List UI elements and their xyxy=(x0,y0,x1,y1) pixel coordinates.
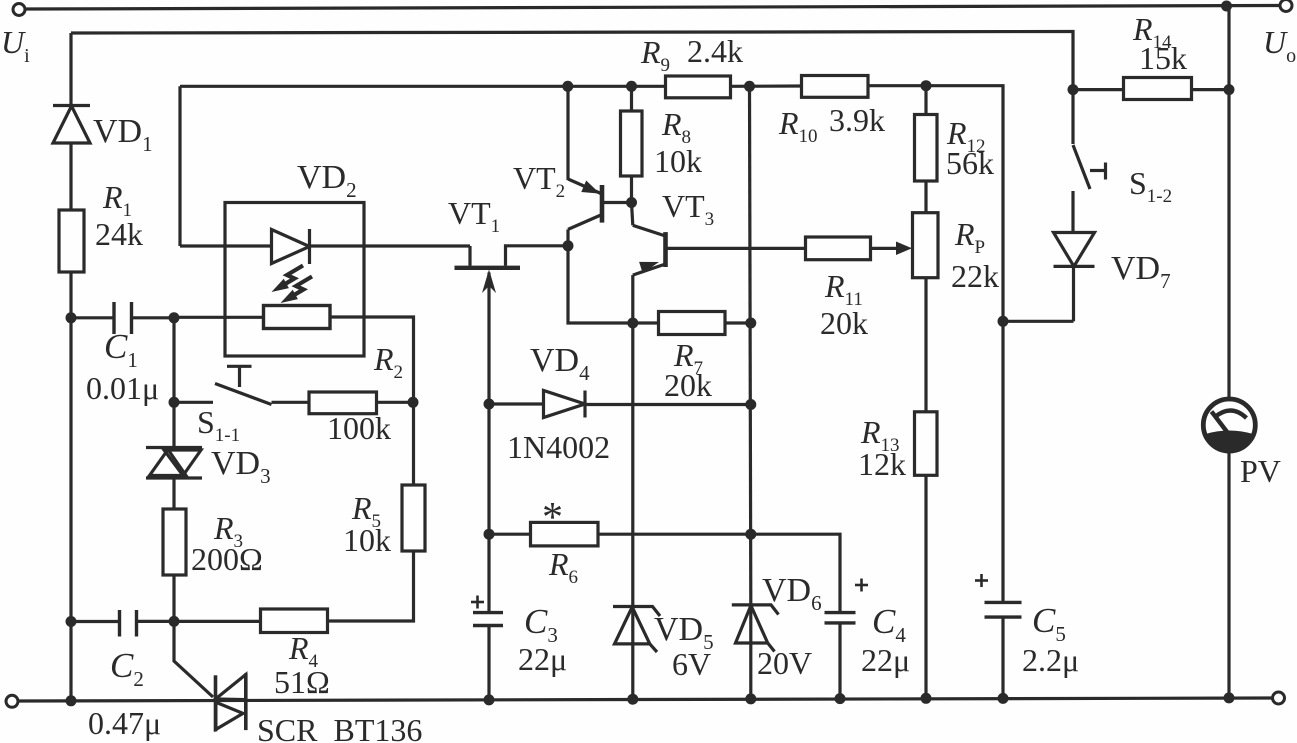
svg-text:Uo: Uo xyxy=(1263,24,1296,67)
switch S1-1 blade xyxy=(215,384,272,405)
node bottom rail C3 xyxy=(484,694,495,705)
wire R6 to C4 xyxy=(598,534,840,612)
wire SCR gate xyxy=(174,621,213,697)
wire PV column upper xyxy=(1227,6,1230,399)
wire VD4 left lead xyxy=(489,402,544,405)
node R14 right xyxy=(1224,84,1235,95)
transistor VT2 xyxy=(568,179,632,246)
node bottom rail C4 xyxy=(835,693,846,704)
wire VD7 bottom link xyxy=(1003,320,1074,323)
diode VD7 xyxy=(1054,233,1095,267)
svg-text:Ui: Ui xyxy=(1,24,30,67)
svg-text:6V: 6V xyxy=(672,646,711,682)
svg-text:C4: C4 xyxy=(872,602,906,647)
wire C2 left lead xyxy=(71,620,120,623)
diac VD3 xyxy=(146,448,202,479)
resistor R5 xyxy=(402,485,425,551)
node bottom rail PV xyxy=(1224,692,1235,703)
light arrows of VD2 xyxy=(272,266,313,304)
wire VD4 right lead xyxy=(585,403,751,406)
node R6 left xyxy=(484,529,495,540)
wire R13 to bottom rail xyxy=(924,475,927,698)
node C2 right xyxy=(169,616,180,627)
wire photoresistor right xyxy=(330,317,414,402)
wire C4 to bottom rail xyxy=(838,623,841,699)
photoresistor of VD2 xyxy=(264,306,331,329)
wire R10 to corner xyxy=(868,86,1003,322)
switch S1-2 contact mark xyxy=(1090,163,1106,180)
node VT1 drain / VT2 collector xyxy=(563,240,574,251)
wire node to photoresistor line xyxy=(174,316,264,319)
node rail R12 xyxy=(921,80,932,91)
wire R3 to C2 node xyxy=(172,575,175,621)
resistor R10 xyxy=(802,76,869,98)
node C1 right xyxy=(169,312,180,323)
svg-text:24k: 24k xyxy=(95,216,143,252)
svg-text:VD6: VD6 xyxy=(762,572,822,615)
wire R14 left lead xyxy=(1073,88,1124,91)
wire LED line left xyxy=(180,244,272,247)
wire top rail xyxy=(26,6,1280,10)
resistor R13 xyxy=(915,412,938,476)
wire VD5 column xyxy=(631,323,634,607)
svg-text:20V: 20V xyxy=(757,645,812,681)
node R14 left / S1-2 top xyxy=(1068,84,1079,95)
terminal output top-right xyxy=(1280,0,1292,12)
wire inner top rail xyxy=(71,32,1073,90)
svg-text:56k: 56k xyxy=(946,145,994,181)
svg-text:1N4002: 1N4002 xyxy=(507,429,610,465)
svg-text:C2: C2 xyxy=(110,646,144,691)
svg-text:3.9k: 3.9k xyxy=(829,102,885,138)
meter PV xyxy=(1203,399,1255,451)
wire C5 column xyxy=(1001,321,1004,602)
node rail VT2 emitter xyxy=(562,81,573,92)
svg-text:20k: 20k xyxy=(820,305,868,341)
capacitor C3 xyxy=(473,613,503,626)
svg-text:R11: R11 xyxy=(824,268,863,310)
svg-text:R9: R9 xyxy=(640,34,670,76)
wire S1-2 upper xyxy=(1071,90,1074,144)
node R2/100k xyxy=(408,397,419,408)
diode VD4 xyxy=(544,391,586,418)
wire VT2 collector to R7 line xyxy=(568,246,633,323)
capacitor C1 xyxy=(114,302,132,334)
wire C5 to bottom rail xyxy=(1001,617,1004,698)
wire S1-2 lower xyxy=(1071,191,1074,233)
node rail R8 xyxy=(626,81,637,92)
svg-text:10k: 10k xyxy=(654,143,702,179)
capacitor C5 xyxy=(985,602,1022,617)
capacitor C4 xyxy=(825,613,856,623)
diode VD1 xyxy=(53,106,90,144)
svg-text:R2: R2 xyxy=(373,341,403,383)
svg-text:10k: 10k xyxy=(343,522,391,558)
wire S1-1 to 100k xyxy=(272,401,310,404)
node C2 left xyxy=(66,616,77,627)
resistor R1 xyxy=(59,210,84,272)
svg-text:2.4k: 2.4k xyxy=(687,33,743,69)
wire LED line to VT1 xyxy=(310,244,471,247)
node bottom rail R13 xyxy=(921,693,932,704)
svg-text:200Ω: 200Ω xyxy=(191,541,263,577)
wire S1-1 left lead xyxy=(174,401,213,404)
svg-text:22k: 22k xyxy=(951,258,999,294)
node bottom rail VD6 xyxy=(745,693,756,704)
svg-text:S1‑1: S1‑1 xyxy=(197,404,240,446)
wire rail y=86 xyxy=(180,85,666,88)
svg-text:VT2: VT2 xyxy=(513,160,565,202)
svg-text:VD7: VD7 xyxy=(1111,250,1171,293)
svg-text:PV: PV xyxy=(1240,453,1281,489)
node VT2 base / R8 / VT3 collector xyxy=(626,197,637,208)
node C1 left xyxy=(66,312,77,323)
wire C2 right lead xyxy=(137,620,175,623)
node rail x750 xyxy=(744,81,755,92)
resistor R3 xyxy=(163,509,186,575)
wire R4 to R5 column xyxy=(328,551,414,621)
potentiometer RP xyxy=(913,213,939,278)
node S1-1 xyxy=(169,397,180,408)
node R6 line x750 xyxy=(745,529,756,540)
wire VD3 branch xyxy=(172,402,175,448)
transistor VT3 xyxy=(632,203,806,324)
svg-text:12k: 12k xyxy=(858,446,906,482)
wire R6 left lead xyxy=(489,533,531,536)
wire VD6 to bottom rail xyxy=(749,605,752,699)
node VT3 emitter / R7 left xyxy=(627,318,638,329)
svg-text:100k: 100k xyxy=(327,410,391,446)
wire R1 to node xyxy=(69,272,72,318)
svg-text:VD4: VD4 xyxy=(530,342,590,385)
wire R2 node to R5 xyxy=(412,402,415,485)
node bottom rail C5 xyxy=(998,693,1009,704)
resistor R7 xyxy=(633,312,751,335)
resistor R9 xyxy=(666,76,731,98)
plus sign C4 xyxy=(855,579,868,592)
svg-text:20k: 20k xyxy=(664,367,712,403)
svg-text:*: * xyxy=(542,495,563,541)
wire PV to bottom rail xyxy=(1227,451,1230,698)
svg-text:R8: R8 xyxy=(661,106,691,148)
svg-text:C5: C5 xyxy=(1032,601,1066,646)
LED diode of VD2 xyxy=(272,229,310,264)
svg-text:RP: RP xyxy=(954,216,985,258)
resistor R11 xyxy=(806,237,913,260)
node bottom rail left column xyxy=(66,695,77,706)
terminal bottom-right xyxy=(1273,692,1285,704)
svg-text:51Ω: 51Ω xyxy=(274,664,330,700)
svg-text:R1: R1 xyxy=(102,179,132,221)
terminal input top-left xyxy=(13,4,25,16)
transistor VT1 xyxy=(455,246,569,404)
node R7 right xyxy=(745,318,756,329)
resistor R4 xyxy=(261,609,328,633)
wire rail corner to LED line xyxy=(178,86,181,246)
svg-text:VD2: VD2 xyxy=(297,159,357,202)
switch S1-2 blade xyxy=(1073,145,1090,189)
svg-text:VT3: VT3 xyxy=(662,188,714,230)
wire x750 vertical xyxy=(750,86,751,605)
svg-text:S1‑2: S1‑2 xyxy=(1129,165,1172,207)
wire C3 column xyxy=(487,404,490,613)
svg-text:VT1: VT1 xyxy=(448,195,500,237)
node VD4 right xyxy=(745,399,756,410)
plus sign C3 xyxy=(471,596,484,609)
svg-text:R10: R10 xyxy=(778,105,818,147)
svg-text:VD1: VD1 xyxy=(93,113,153,156)
zener VD6 xyxy=(732,605,779,652)
capacitor C2 xyxy=(120,610,137,637)
svg-text:15k: 15k xyxy=(1139,40,1187,76)
wire VD1 to R1 xyxy=(69,143,72,210)
wire R14 right lead xyxy=(1192,88,1230,91)
node bottom rail VD5 xyxy=(627,694,638,705)
wire VT2 emitter vertical xyxy=(566,86,569,180)
wire C1 right lead xyxy=(132,316,175,319)
triac SCR BT136 xyxy=(216,673,246,731)
node VD4 left xyxy=(484,399,495,410)
svg-text:VD3: VD3 xyxy=(211,445,271,488)
resistor R12 xyxy=(915,86,938,213)
svg-text:22μ: 22μ xyxy=(518,641,567,677)
wire VD3 to R3 xyxy=(172,478,175,509)
svg-text:SCR BT136: SCR BT136 xyxy=(257,712,422,743)
resistor R8 xyxy=(621,86,643,202)
wire C3 to bottom rail xyxy=(487,626,490,701)
svg-text:0.47μ: 0.47μ xyxy=(88,705,161,741)
terminal bottom-left xyxy=(6,695,18,707)
node VD7 link xyxy=(998,316,1009,327)
wire 100k to node xyxy=(377,401,414,404)
wire C1 left lead xyxy=(71,316,114,319)
resistor 100k xyxy=(309,392,377,414)
zener VD5 xyxy=(613,607,660,653)
resistor R14 xyxy=(1124,78,1192,100)
wire node to R4 xyxy=(174,620,261,623)
wire VD7 to node xyxy=(1072,266,1075,321)
resistor R6 xyxy=(531,522,599,546)
switch S1-1 contact mark xyxy=(227,366,252,387)
wire R9 to R10 xyxy=(731,84,802,88)
optocoupler VD2 box xyxy=(225,203,364,357)
svg-text:R6: R6 xyxy=(548,546,578,588)
node top rail to PV branch xyxy=(1221,1,1232,12)
plus sign C5 xyxy=(975,574,988,587)
svg-text:22μ: 22μ xyxy=(861,642,910,678)
wire S1-1 branch vertical xyxy=(172,318,175,403)
wire bottom rail xyxy=(18,698,1273,701)
wire VD5 to bottom rail xyxy=(631,607,634,700)
svg-text:2.2μ: 2.2μ xyxy=(1022,642,1079,678)
svg-text:0.01μ: 0.01μ xyxy=(86,370,159,406)
wire left column lower xyxy=(69,318,72,701)
wire left column top xyxy=(69,33,72,106)
wire RP to R13 xyxy=(924,278,927,412)
